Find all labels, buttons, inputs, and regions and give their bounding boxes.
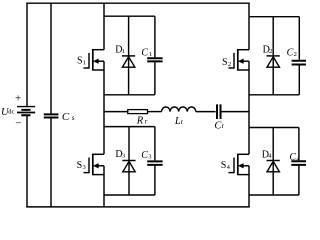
svg-text:1: 1 bbox=[122, 48, 125, 55]
svg-text:C: C bbox=[287, 48, 294, 59]
svg-text:3: 3 bbox=[148, 153, 151, 160]
svg-text:C: C bbox=[289, 152, 296, 163]
svg-text:2: 2 bbox=[294, 51, 297, 58]
svg-text:2: 2 bbox=[269, 48, 272, 55]
svg-text:3: 3 bbox=[122, 153, 125, 160]
svg-text:S: S bbox=[222, 57, 228, 68]
svg-text:−: − bbox=[15, 118, 21, 130]
svg-text:+: + bbox=[15, 93, 21, 105]
svg-text:s: s bbox=[72, 114, 75, 122]
svg-text:C: C bbox=[62, 111, 70, 123]
svg-text:2: 2 bbox=[228, 61, 231, 68]
svg-text:C: C bbox=[141, 150, 148, 161]
svg-text:C: C bbox=[141, 47, 148, 58]
svg-text:dc: dc bbox=[8, 109, 14, 116]
svg-text:R: R bbox=[136, 115, 144, 126]
svg-text:S: S bbox=[77, 160, 83, 171]
svg-text:3: 3 bbox=[83, 164, 86, 171]
svg-text:1: 1 bbox=[149, 51, 152, 58]
svg-text:S: S bbox=[77, 56, 83, 67]
svg-text:S: S bbox=[221, 160, 227, 171]
svg-text:1: 1 bbox=[83, 59, 86, 66]
